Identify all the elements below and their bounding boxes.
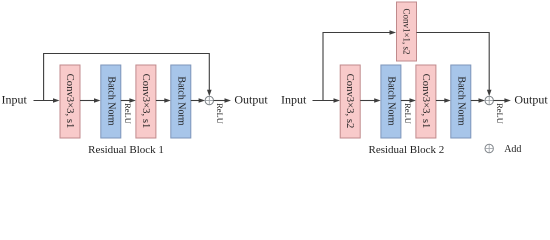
wire Conv2 to BatchNorm2 (block 2) [436, 100, 445, 102]
wire add to Output (block 2) [493, 100, 505, 102]
svg-text:Conv1×1, s2: Conv1×1, s2 [402, 8, 412, 54]
block conv layer Conv3x3,s1 (block 2) [416, 65, 436, 138]
svg-text:ReLU: ReLU [403, 103, 413, 124]
block BatchNorm first (block 2) [381, 65, 401, 138]
svg-text:Input: Input [2, 93, 28, 107]
wire add to Output (block 1) [214, 100, 226, 102]
arrowhead into Conv2 (block 1) [129, 98, 136, 103]
svg-text:Output: Output [234, 93, 268, 107]
svg-text:Conv3×3, s1: Conv3×3, s1 [420, 74, 432, 129]
wire BatchNorm1 to Conv2 with ReLU (block 1) [121, 100, 130, 102]
svg-text:Batch Norm: Batch Norm [455, 76, 466, 125]
svg-text:ReLU: ReLU [215, 103, 225, 124]
arrowhead into BatchNorm2 (block 2) [444, 98, 451, 103]
wire input to Conv1 (block 2) [313, 100, 335, 102]
arrowhead to Output (block 1) [225, 98, 232, 103]
svg-text:Batch Norm: Batch Norm [385, 76, 396, 125]
wire input to Conv1 (block 1) [34, 100, 54, 102]
arrowhead into add (block 1) [199, 98, 206, 103]
svg-text:Batch Norm: Batch Norm [175, 76, 186, 125]
svg-text:Output: Output [514, 93, 548, 107]
wire skip connection (block 1) [44, 54, 210, 101]
arrowhead into Conv2 (block 2) [410, 98, 417, 103]
node add circle (block 1) [205, 96, 213, 104]
block BatchNorm second (block 1) [171, 65, 191, 138]
legend add symbol [485, 144, 493, 152]
block conv layer Conv3x3,s1 first (block 1) [60, 65, 80, 138]
wire Conv1 to BatchNorm1 (block 2) [360, 100, 375, 102]
block BatchNorm second (block 2) [451, 65, 471, 138]
block BatchNorm first (block 1) [101, 65, 121, 138]
wire BatchNorm2 to add (block 1) [191, 100, 200, 102]
wire Conv1 to BatchNorm1 (block 1) [80, 100, 95, 102]
svg-text:Conv3×3, s1: Conv3×3, s1 [140, 74, 152, 129]
arrowhead skip into add (block 1) [207, 90, 212, 96]
arrowhead skip into add (block 2) [487, 90, 492, 96]
arrowhead to Output (block 2) [504, 98, 511, 103]
svg-text:Conv3×3, s1: Conv3×3, s1 [64, 74, 76, 129]
wire Conv2 to BatchNorm2 (block 1) [156, 100, 165, 102]
arrowhead into Conv1 (block 1) [53, 98, 60, 103]
arrowhead into BatchNorm2 (block 1) [164, 98, 171, 103]
node add circle (block 2) [485, 96, 493, 104]
arrowhead into BatchNorm1 (block 1) [94, 98, 101, 103]
arrowhead into BatchNorm1 (block 2) [374, 98, 381, 103]
arrowhead into add (block 2) [479, 98, 486, 103]
block conv layer Conv3x3,s2 (block 2) [340, 65, 360, 138]
wire BatchNorm1 to Conv2 with ReLU (block 2) [401, 100, 410, 102]
arrowhead into Conv1 (block 2) [334, 98, 341, 103]
svg-text:Add: Add [504, 144, 521, 155]
block conv layer Conv1x1,s2 skip (block 2) [397, 2, 417, 61]
svg-text:ReLU: ReLU [495, 103, 505, 124]
arrowhead into Conv1x1 (block 2) [390, 30, 397, 35]
svg-text:Input: Input [281, 93, 307, 107]
svg-text:ReLU: ReLU [123, 103, 133, 124]
wire Conv1x1 to add (block 2) [417, 33, 490, 91]
block conv layer Conv3x3,s1 second (block 1) [136, 65, 156, 138]
svg-text:Batch Norm: Batch Norm [105, 76, 116, 125]
wire skip rise to Conv1x1 (block 2) [323, 33, 390, 101]
svg-text:Conv3×3, s2: Conv3×3, s2 [344, 74, 356, 129]
svg-text:Residual Block 2: Residual Block 2 [369, 144, 445, 156]
svg-text:Residual Block 1: Residual Block 1 [88, 144, 164, 156]
wire BatchNorm2 to add (block 2) [471, 100, 480, 102]
